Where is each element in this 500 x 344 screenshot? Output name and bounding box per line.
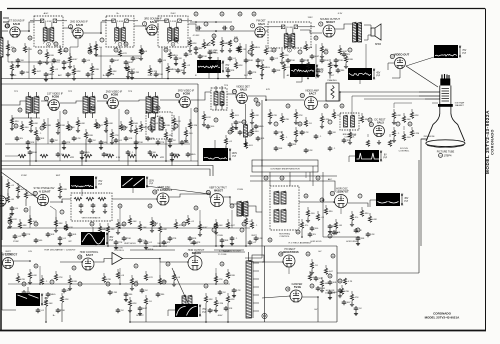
label R119 value (342, 51, 348, 53)
label 4.5MC takeoff (193, 35, 200, 37)
svg-text:220K: 220K (88, 135, 94, 137)
label misc 17 (318, 251, 322, 253)
node terminal 13 row1 (314, 36, 318, 40)
svg-text:4.7K: 4.7K (312, 277, 317, 279)
capacitor C105 (110, 58, 115, 63)
capacitor C835 (308, 232, 313, 237)
svg-text:12K: 12K (128, 138, 132, 140)
wire T5 to speaker top (364, 25, 371, 29)
resistor R845 (321, 277, 323, 280)
svg-text:6.8K: 6.8K (108, 123, 113, 125)
resistor R821 (185, 127, 187, 130)
wire drop 15 (81, 155, 83, 166)
svg-text:17BP4: 17BP4 (444, 153, 452, 157)
svg-text:470K: 470K (290, 60, 296, 62)
wire drop 13 (165, 139, 167, 161)
transformer T10 vert output (237, 202, 242, 216)
wire drop 16 (127, 155, 129, 166)
node terminal 10 row1 (238, 12, 242, 16)
capacitor C828 (68, 232, 73, 237)
tube V17 vert osc half (3, 258, 14, 270)
label R207 value (98, 125, 103, 127)
label C307 value (308, 150, 313, 152)
wire row2 AGC bus (12, 118, 40, 130)
resistor R502 (29, 215, 31, 218)
wire T8 to V9 grid (160, 100, 179, 102)
capacitor C814 (336, 68, 341, 73)
label C827 value (50, 234, 54, 236)
resistor R810 (217, 57, 219, 60)
node terminal 6 row1 (194, 12, 198, 16)
label C844 value (320, 288, 325, 290)
label misc 15 (147, 249, 154, 251)
wire drop 24 (301, 229, 303, 237)
capacitor C603 (108, 290, 113, 295)
resistor R305 (333, 109, 335, 112)
junction dot 25 (167, 78, 169, 80)
wire drop 2 (91, 72, 93, 79)
label focus control (399, 148, 410, 153)
wire CRT grid feed (352, 96, 440, 124)
label R202 value (33, 123, 38, 125)
wire drop 20 (107, 233, 109, 246)
label R820 value (169, 135, 173, 137)
label R114 value (253, 47, 259, 49)
wire drop 12 (135, 135, 137, 161)
svg-text:82K: 82K (193, 43, 197, 45)
svg-text:4.7K: 4.7K (348, 281, 353, 283)
resistor R518 (351, 211, 353, 214)
label C206 value (93, 140, 96, 142)
node on divider (254, 98, 258, 102)
label R812 value (263, 67, 269, 69)
resistor R105 (89, 43, 91, 46)
svg-text:6.8K: 6.8K (372, 219, 377, 221)
label R816 value (40, 133, 43, 135)
wire video amp plate line (318, 92, 394, 101)
resistor R835 (301, 219, 303, 222)
resistor R513 (227, 219, 229, 222)
svg-text:6BG6G: 6BG6G (192, 251, 201, 255)
title block bottom (425, 312, 460, 320)
label R819 value (139, 131, 143, 133)
resistor R836 (335, 219, 337, 222)
DC restorer resistors (366, 140, 369, 146)
capacitor C612 (354, 306, 359, 311)
capacitor C100 (16, 58, 21, 63)
resistor R603 (55, 271, 57, 274)
node junction 7 (248, 50, 252, 54)
label C607 value (223, 292, 226, 294)
junction dot 12 (229, 196, 231, 198)
svg-text:27K: 27K (234, 37, 238, 39)
label C104 value (87, 60, 91, 62)
label C119 value (314, 56, 320, 58)
svg-text:82K: 82K (239, 65, 243, 67)
tube V4 1st audio 6AT6 (255, 27, 265, 38)
capacitor C206 (88, 138, 93, 143)
node junction 11 (348, 48, 352, 52)
resistor R109 (169, 49, 171, 52)
label C106 value (128, 62, 134, 64)
transformer T2 sound IF dashed (106, 16, 134, 47)
capacitor C511 (328, 224, 333, 229)
svg-text:.0047: .0047 (314, 56, 320, 58)
label hor osc half (44, 248, 76, 252)
label R400 CRT bias value (396, 115, 401, 117)
svg-text:33K: 33K (135, 58, 139, 60)
ground disc area (228, 48, 232, 52)
svg-text:1MEG: 1MEG (263, 67, 269, 69)
svg-text:TO YOKE: TO YOKE (218, 254, 227, 256)
tube V9 3rd video IF 6CB6 (180, 97, 191, 108)
resistor R301 (281, 113, 283, 116)
label misc 1 (117, 13, 120, 15)
capacitor C203 (50, 138, 55, 143)
capacitor C830 (138, 238, 143, 243)
label C600 value (26, 292, 30, 294)
svg-text:OUT: OUT (330, 75, 335, 77)
resistor R113 (239, 43, 241, 46)
wire hor osc to discharge (340, 208, 342, 214)
capacitor C806 (154, 72, 159, 77)
resistor R504 (65, 221, 67, 224)
wire row3 B bus (8, 227, 250, 229)
capacitor C817 (80, 150, 85, 155)
label C508 value (235, 238, 238, 240)
label R304 value (324, 119, 329, 121)
label R110 value (193, 43, 197, 45)
capacitor C510 (310, 226, 315, 231)
label R403 CRT bias value (398, 133, 401, 135)
label brightness control (343, 134, 357, 139)
resistor R844 (309, 271, 311, 274)
label R840 value (149, 301, 152, 303)
wire vert amp couple (14, 260, 31, 262)
wire drop 30 (227, 303, 229, 322)
capacitor C836 (332, 230, 337, 235)
label R205 value (71, 127, 75, 129)
label net 1 (58, 74, 63, 77)
wire drop 10 (35, 137, 37, 161)
junction dot 4 (47, 104, 49, 106)
svg-text:2.2M: 2.2M (192, 125, 197, 127)
label R108 value (144, 51, 148, 53)
capacitor C107 (131, 56, 136, 61)
waveform W4 video to CRT (434, 45, 458, 58)
node terminal 4 row3 (194, 206, 198, 210)
label R831 value (111, 229, 115, 231)
resistor R807 (149, 65, 151, 68)
label R837 value (49, 303, 53, 305)
capacitor C191 (222, 26, 227, 31)
node junction 9 (298, 50, 302, 54)
label R100 value (11, 47, 14, 49)
svg-text:470K: 470K (60, 310, 66, 312)
label C210 value (138, 142, 144, 144)
wire row2 drop e (118, 109, 120, 161)
node junction 24 (8, 220, 12, 224)
svg-text:47K: 47K (252, 72, 256, 74)
peaking coil video det (244, 125, 248, 137)
svg-text:220K: 220K (46, 125, 52, 127)
junction dot 26 (217, 78, 219, 80)
label R509 value (155, 223, 159, 225)
label R605 value (106, 279, 112, 281)
capacitor C832 (188, 236, 193, 241)
svg-text:27K: 27K (160, 142, 164, 144)
label R113 value (243, 49, 246, 51)
wire hor band a (252, 165, 318, 167)
label C512 value (359, 230, 362, 232)
label R836 value (339, 225, 342, 227)
node terminal 7 row3 (320, 198, 324, 202)
resistor R217 (231, 109, 233, 112)
svg-text:45V: 45V (109, 237, 114, 239)
node terminal 2 row3 (118, 204, 122, 208)
svg-text:2.2M: 2.2M (218, 303, 223, 305)
junction dot 47 (301, 236, 303, 238)
node junction 32 (240, 228, 244, 232)
wire V1 plate to T1 (20, 22, 34, 31)
node junction 14 (68, 126, 72, 130)
label R818 value (115, 135, 119, 137)
label R300 value (272, 115, 278, 117)
junction dot 33 (107, 245, 109, 247)
yoke connector (262, 313, 267, 318)
label C602 value (66, 290, 71, 292)
svg-text:33K: 33K (23, 225, 27, 227)
node terminal 2 row2 (91, 106, 95, 110)
wire row1 bus drop e (315, 44, 317, 79)
svg-text:220K: 220K (304, 60, 310, 62)
node junction 45 (310, 284, 314, 288)
resistor R204 (57, 119, 59, 122)
label R517 value (329, 211, 333, 213)
resistor R212 (151, 117, 153, 120)
svg-text:1MEG: 1MEG (331, 292, 337, 294)
wire row3 drop c (199, 210, 201, 228)
svg-text:470K: 470K (106, 279, 112, 281)
label R520 value (372, 219, 377, 221)
label C505 value (149, 242, 153, 244)
svg-text:150K: 150K (184, 142, 190, 144)
capacitor C205 (72, 136, 77, 141)
label C610 value (332, 282, 337, 284)
svg-text:27K: 27K (118, 242, 122, 244)
label R305 value (337, 115, 341, 117)
wire sync to hor AFC diagonal (146, 186, 210, 194)
label R308 value (300, 133, 303, 135)
svg-text:AGC: AGC (44, 12, 49, 15)
wire V8 plate to T8 (119, 100, 146, 101)
junction dot 1 (100, 32, 102, 34)
node terminal 2 row1 (54, 42, 58, 46)
label R101 value (27, 49, 33, 51)
label C810 value (252, 72, 256, 74)
svg-text:2.2M: 2.2M (320, 288, 325, 290)
label HV assembly (289, 242, 312, 245)
svg-text:P-P: P-P (319, 72, 323, 74)
label misc 14 (28, 251, 32, 253)
label C811 value (276, 70, 280, 72)
label C821 value (174, 154, 180, 156)
node terminal 1 row4 (72, 266, 76, 270)
label net 6 (287, 74, 290, 77)
svg-text:470K: 470K (138, 142, 144, 144)
wire sync takeoff diagonal (1, 172, 40, 200)
svg-text:P-P: P-P (404, 201, 408, 203)
junction dot 43 (199, 227, 201, 229)
wire hor AFC to hor osc (299, 201, 334, 203)
label C502 value (63, 238, 67, 240)
label C824 value (260, 138, 265, 140)
wire sync section divider (1, 245, 262, 247)
label R835 value (305, 225, 308, 227)
wire CRT anode feed (421, 139, 428, 246)
svg-text:5V4G: 5V4G (294, 285, 301, 289)
wire hor section top rail (262, 245, 337, 247)
HV cage resistor (343, 278, 346, 284)
wire W13 probe (92, 227, 94, 232)
capacitor C808 (194, 46, 199, 51)
junction dot 8 (339, 91, 341, 93)
label hor freq control (279, 234, 290, 239)
svg-text:BOOST: BOOST (136, 315, 144, 317)
svg-text:1MEG: 1MEG (189, 154, 195, 156)
svg-text:470K: 470K (284, 119, 290, 121)
svg-text:6.8K: 6.8K (80, 123, 85, 125)
wire drop 18 (7, 189, 9, 196)
wire row3 right bus (305, 172, 307, 178)
svg-text:82K: 82K (231, 299, 235, 301)
label C117 value (290, 60, 296, 62)
label C612 value (359, 308, 362, 310)
junction dot 44 (39, 283, 41, 285)
svg-text:470K: 470K (158, 74, 164, 76)
capacitor C824 (256, 136, 261, 141)
junction dot 23 (91, 78, 93, 80)
svg-text:GND: GND (12, 75, 17, 77)
label R612 value (230, 275, 236, 277)
label net 3 (148, 75, 153, 77)
capacitor C825 (10, 206, 15, 211)
resistor R815 (329, 59, 331, 62)
hor AFC coil lower (274, 210, 279, 222)
resistor R840 (145, 295, 147, 298)
svg-text:PICTURE TUBE: PICTURE TUBE (437, 151, 455, 154)
label R826 value (11, 185, 15, 187)
label C112 value (212, 52, 216, 54)
label R814 value (311, 65, 315, 67)
label R216 value (206, 117, 211, 119)
label hor out area (153, 246, 168, 248)
label C832 value (192, 238, 196, 240)
node junction 17 (148, 126, 152, 130)
svg-text:82K: 82K (77, 71, 81, 73)
svg-text:CORONADO: CORONADO (491, 129, 495, 155)
svg-text:DET: DET (244, 75, 249, 77)
capacitor C122 (342, 52, 347, 57)
capacitor C112 (208, 50, 213, 55)
resistor R404 CRT bias (403, 131, 405, 134)
resistor R117 (305, 41, 307, 44)
svg-text:5%: 5% (355, 217, 358, 219)
heater zigzag IF strip (18, 154, 26, 157)
junction dot 16 (159, 258, 161, 260)
label R803 value (77, 71, 81, 73)
label R117 value (309, 47, 313, 49)
svg-text:1MEG: 1MEG (49, 294, 55, 296)
svg-text:47K: 47K (110, 74, 114, 76)
label R107 value (122, 53, 127, 55)
node junction 30 (182, 222, 186, 226)
wire drop 3 (127, 72, 129, 79)
capacitor C302 (300, 130, 305, 135)
label R211 value (142, 127, 148, 129)
label C802 value (70, 74, 75, 76)
label R827 value (20, 189, 25, 191)
capacitor C217 (254, 124, 259, 129)
label net 7 (330, 75, 335, 77)
svg-text:220K: 220K (348, 59, 354, 61)
junction dot 9 (61, 201, 63, 203)
node junction 28 (122, 222, 126, 226)
transformer T4 discriminator dashed (268, 22, 311, 48)
svg-text:33K: 33K (360, 238, 364, 240)
junction dot 11 (209, 193, 211, 195)
capacitor C504 (122, 236, 127, 241)
capacitor C818 (102, 152, 107, 157)
node terminals video amp (286, 104, 290, 108)
junction dot 38 (129, 321, 131, 323)
wire T4 to audio grid (300, 30, 322, 33)
label C204 value (66, 142, 70, 144)
resistor R401 CRT bias (403, 113, 405, 116)
waveform W2 discriminator (290, 64, 315, 77)
label C609 value (318, 278, 322, 280)
wire drop 22 (215, 229, 217, 246)
label C122 value (347, 54, 350, 56)
svg-text:.0047: .0047 (128, 62, 134, 64)
junction dot 20 (317, 296, 319, 298)
label C806 value (158, 74, 164, 76)
resistor R817 (85, 129, 87, 132)
capacitor C811 (272, 68, 277, 73)
svg-text:6CB6: 6CB6 (52, 95, 60, 99)
junction dot 42 (119, 227, 121, 229)
peaking coil box (326, 83, 339, 101)
wire V4 to discriminator transformer (266, 30, 268, 32)
label C845 value (331, 292, 337, 294)
svg-text:220K: 220K (94, 69, 100, 71)
capacitor C503 (94, 240, 99, 245)
label R512 value (202, 227, 208, 229)
svg-text:70V: 70V (462, 50, 467, 52)
label C103 value (66, 62, 72, 64)
capacitor C602 (62, 288, 67, 293)
waveform W9 hor AFC wave (376, 193, 400, 206)
resistor R809 (183, 59, 185, 62)
wire drop 6 (261, 70, 263, 79)
capacitor C213 (168, 138, 173, 143)
svg-text:1MEG: 1MEG (83, 152, 89, 154)
wire sync amp out (50, 199, 71, 202)
resistor R203 (43, 119, 45, 122)
label net 15 (251, 235, 257, 237)
label C110 value (189, 54, 193, 56)
label misc 7 (128, 91, 133, 93)
